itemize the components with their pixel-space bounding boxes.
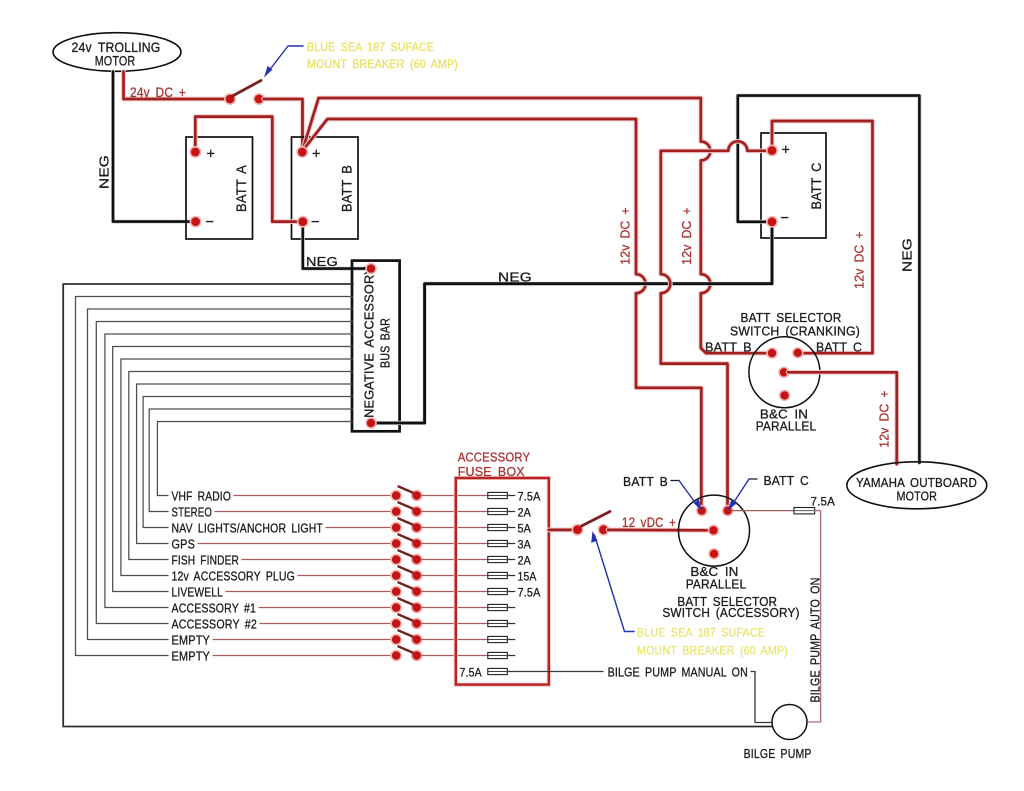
- wire: GPS feed (red) to breaker switch: [198, 543, 392, 545]
- svg-text:MOUNT BREAKER (60 AMP): MOUNT BREAKER (60 AMP): [307, 57, 458, 71]
- svg-text:2A: 2A: [518, 554, 532, 568]
- switch: EMPTY breaker: [390, 647, 422, 662]
- fuse F8: [488, 604, 515, 610]
- wire: EMPTY feed (red) to breaker switch: [213, 639, 392, 641]
- switch: GPS breaker: [390, 535, 422, 550]
- switch: ACCESSORY #1 breaker: [390, 599, 422, 614]
- bus bar terminal (top): [365, 263, 377, 275]
- svg-text:ACCESSORY #2: ACCESSORY #2: [172, 618, 258, 632]
- wire: STEREO negative (nested, to bus bar): [149, 409, 353, 512]
- switch: EMPTY breaker: [390, 631, 422, 646]
- svg-text:7.5A: 7.5A: [518, 490, 541, 504]
- svg-text:BATT C: BATT C: [808, 163, 824, 210]
- svg-text:BLUE SEA 187 SUFACE: BLUE SEA 187 SUFACE: [637, 626, 765, 640]
- svg-text:MOTOR: MOTOR: [95, 54, 136, 69]
- svg-text:3A: 3A: [518, 538, 532, 552]
- svg-text:BATT A: BATT A: [233, 165, 249, 212]
- wire: EMPTY negative (nested, to bus bar): [76, 297, 354, 656]
- svg-text:ACCESSORY #1: ACCESSORY #1: [172, 602, 257, 616]
- wire: accessory selector to bilge auto fuse: [732, 510, 795, 512]
- svg-text:5A: 5A: [518, 522, 532, 536]
- svg-text:BUS BAR: BUS BAR: [378, 318, 393, 368]
- wire: ACCESSORY #1 into fuse box: [421, 607, 488, 609]
- wire: 12v ACCESSORY PLUG into fuse box: [421, 575, 488, 577]
- terminal BATT A +: [189, 146, 201, 158]
- selector switch S2: batt selector (accessory): [679, 495, 750, 566]
- wire: BATT B + to accessory selector BATT B terminal (red): [302, 119, 701, 506]
- wire: fuse box 12 vDC + feed: [549, 528, 574, 533]
- callout: Blue Sea 187 surface mount breaker (lower): [591, 531, 788, 658]
- svg-text:BILGE PUMP MANUAL ON: BILGE PUMP MANUAL ON: [608, 665, 748, 680]
- svg-text:GPS: GPS: [172, 538, 196, 552]
- svg-text:LIVEWELL: LIVEWELL: [172, 586, 224, 600]
- terminal BATT A -: [190, 216, 202, 228]
- svg-text:7.5A: 7.5A: [811, 495, 836, 509]
- battery BATT C: [761, 133, 826, 238]
- wire: EMPTY feed (red) to breaker switch: [213, 655, 392, 657]
- svg-text:+: +: [207, 147, 216, 163]
- wire: BATT B - to bus bar (black): [303, 224, 366, 269]
- wire: bilge pump negative (bus bar to bilge pump, outermost): [63, 284, 772, 727]
- svg-text:2A: 2A: [518, 506, 532, 520]
- wire: ACCESSORY #2 feed (red) to breaker switch: [260, 623, 392, 625]
- svg-text:BATT C: BATT C: [764, 473, 810, 488]
- svg-text:FUSE BOX: FUSE BOX: [458, 464, 525, 479]
- svg-text:BATT B: BATT B: [705, 340, 752, 355]
- wire: VHF RADIO feed (red) to breaker switch: [234, 495, 392, 497]
- accessory fuse box: [456, 478, 549, 685]
- svg-text:NEG: NEG: [900, 238, 915, 272]
- negative accessory bus bar: [352, 261, 400, 432]
- wire: cranking selector output 12v DC + to outboard (red): [788, 372, 897, 464]
- fuse F7: [488, 588, 515, 594]
- fuse F12: bilge pump manual 7.5A: [460, 666, 508, 680]
- wire: GPS into fuse box: [421, 543, 488, 545]
- svg-text:BATT C: BATT C: [816, 340, 862, 355]
- fuse F2: [488, 508, 515, 514]
- wire: bus bar to BATT C - (black NEG): [371, 225, 772, 423]
- svg-text:7.5A: 7.5A: [518, 586, 541, 600]
- svg-text:12v DC +: 12v DC +: [679, 207, 694, 265]
- selector switch S1: batt selector (cranking): [749, 337, 820, 408]
- wire: STEREO feed (red) to breaker switch: [215, 511, 392, 513]
- fuse F6: [488, 572, 515, 578]
- wire: EMPTY negative (nested, to bus bar): [88, 309, 354, 640]
- wire: BATT C + to accessory selector BATT C (red, with hops): [661, 141, 768, 506]
- wire: ACCESSORY #2 negative (nested, to bus bar): [96, 322, 353, 624]
- svg-text:+: +: [782, 143, 791, 159]
- bus bar terminal (bottom): [365, 417, 377, 429]
- wire: BATT B + to cranking selector BATT B terminal (red): [302, 98, 767, 353]
- svg-text:NAV LIGHTS/ANCHOR LIGHT: NAV LIGHTS/ANCHOR LIGHT: [172, 522, 324, 536]
- terminal BATT B -: [297, 216, 309, 228]
- switch: 12v ACCESSORY PLUG breaker: [390, 567, 422, 582]
- svg-text:NEG: NEG: [97, 155, 112, 189]
- fuse F4: [488, 540, 515, 546]
- wire: BATT C + up and over to cranking selector BATT C (red): [772, 121, 873, 353]
- wire: FISH FINDER into fuse box: [421, 559, 488, 561]
- svg-text:NEGATIVE ACCESSORY: NEGATIVE ACCESSORY: [362, 266, 377, 418]
- svg-text:−: −: [311, 215, 320, 231]
- svg-text:FISH FINDER: FISH FINDER: [172, 554, 240, 568]
- wire: bilge pump manual on: [507, 671, 603, 673]
- fuse F3: [488, 524, 515, 530]
- wire: NAV LIGHTS/ANCHOR LIGHT negative (nested, to bus bar): [143, 397, 353, 528]
- wire: FISH FINDER feed (red) to breaker switch: [242, 559, 392, 561]
- switch: LIVEWELL breaker: [390, 583, 422, 598]
- label BATT B (accessory) with arrow: [623, 474, 702, 511]
- svg-text:12v DC +: 12v DC +: [618, 207, 633, 265]
- svg-text:BILGE PUMP: BILGE PUMP: [744, 746, 812, 761]
- switch: FISH FINDER breaker: [390, 551, 422, 566]
- wire: LIVEWELL feed (red) to breaker switch: [226, 591, 392, 593]
- wire: NAV LIGHTS/ANCHOR LIGHT feed (red) to breaker switch: [326, 527, 392, 529]
- switch: ACCESSORY #2 breaker: [390, 615, 422, 630]
- motor M1: 24v trolling motor: [53, 33, 181, 72]
- wire: trolling motor 24v DC + (red) to breaker: [124, 72, 227, 100]
- fuse F5: [488, 556, 515, 562]
- svg-text:−: −: [781, 211, 790, 227]
- wire: 12v ACCESSORY PLUG feed (red) to breaker switch: [298, 575, 392, 577]
- terminal BATT C -: [766, 216, 778, 228]
- wire: VHF RADIO negative (nested, to bus bar): [157, 422, 353, 496]
- svg-text:STEREO: STEREO: [172, 506, 213, 520]
- callout: Blue Sea 187 surface mount breaker (upper): [264, 40, 458, 78]
- breaker CB2: Blue Sea 187 60A (accessory): [572, 512, 611, 536]
- svg-text:24v DC +: 24v DC +: [130, 85, 186, 100]
- svg-text:SWITCH (ACCESSORY): SWITCH (ACCESSORY): [662, 605, 799, 620]
- switch: NAV LIGHTS/ANCHOR LIGHT breaker: [390, 519, 422, 534]
- wire: LIVEWELL into fuse box: [421, 591, 488, 593]
- wire: GPS negative (nested, to bus bar): [137, 384, 353, 544]
- svg-text:12v ACCESSORY PLUG: 12v ACCESSORY PLUG: [172, 570, 296, 584]
- wire: ACCESSORY #1 negative (nested, to bus bar): [105, 334, 353, 608]
- switch: VHF RADIO breaker: [390, 487, 422, 502]
- battery BATT B: [292, 137, 359, 239]
- wire: trolling motor negative (black) to BATT A -: [113, 72, 191, 222]
- wire: ACCESSORY #1 feed (red) to breaker switch: [259, 607, 392, 609]
- svg-text:−: −: [206, 215, 215, 231]
- label BATT C (accessory) with arrow: [728, 473, 809, 511]
- svg-text:SWITCH (CRANKING): SWITCH (CRANKING): [730, 324, 860, 339]
- wire: ACCESSORY #2 into fuse box: [421, 623, 488, 625]
- svg-text:12v DC +: 12v DC +: [877, 390, 892, 448]
- svg-text:NEG: NEG: [498, 270, 532, 285]
- wire: breaker to accessory selector center: [608, 528, 710, 533]
- wire: LIVEWELL negative (nested, to bus bar): [113, 347, 353, 592]
- svg-text:12v DC +: 12v DC +: [852, 231, 867, 289]
- svg-text:MOTOR: MOTOR: [897, 489, 938, 504]
- svg-text:+: +: [312, 147, 321, 163]
- fuse F13: bilge auto 7.5A: [794, 508, 815, 514]
- wire: STEREO into fuse box: [421, 511, 488, 513]
- svg-text:MOUNT BREAKER (60 AMP): MOUNT BREAKER (60 AMP): [637, 644, 788, 658]
- svg-text:NEG: NEG: [306, 254, 338, 269]
- wire: NAV LIGHTS/ANCHOR LIGHT into fuse box: [421, 527, 488, 529]
- wire: VHF RADIO into fuse box: [421, 495, 488, 497]
- fuse F1: [488, 492, 515, 498]
- svg-text:PARALLEL: PARALLEL: [686, 577, 747, 592]
- switch: STEREO breaker: [390, 503, 422, 518]
- svg-text:15A: 15A: [518, 570, 537, 584]
- terminal BATT B +: [296, 146, 308, 158]
- wire: bilge pump auto on: [807, 511, 820, 722]
- svg-text:7.5A: 7.5A: [460, 666, 482, 680]
- svg-text:12 vDC +: 12 vDC +: [622, 515, 676, 530]
- wire: FISH FINDER negative (nested, to bus bar): [129, 372, 353, 560]
- svg-text:EMPTY: EMPTY: [172, 650, 211, 664]
- svg-text:ACCESSORY: ACCESSORY: [458, 450, 531, 465]
- black loop: BATT C - to outboard negative: [738, 96, 920, 463]
- terminal BATT C +: [766, 145, 778, 157]
- bilge pump: [772, 705, 807, 740]
- svg-text:EMPTY: EMPTY: [172, 634, 211, 648]
- svg-text:VHF RADIO: VHF RADIO: [172, 490, 232, 504]
- wire: 12v ACCESSORY PLUG negative (nested, to bus bar): [121, 359, 353, 576]
- svg-text:BATT B: BATT B: [338, 165, 354, 212]
- svg-text:BILGE PUMP AUTO ON: BILGE PUMP AUTO ON: [808, 578, 823, 703]
- svg-text:BATT B: BATT B: [623, 474, 668, 489]
- breaker CB1: Blue Sea 187 60A (trolling motor): [224, 81, 265, 106]
- wire: BATT A + to BATT B - (series 24v, red): [195, 117, 298, 222]
- motor M2: yamaha outboard motor: [847, 462, 987, 509]
- wire: EMPTY into fuse box: [421, 655, 488, 657]
- svg-text:BLUE SEA 187 SUFACE: BLUE SEA 187 SUFACE: [307, 40, 434, 54]
- svg-text:PARALLEL: PARALLEL: [756, 419, 817, 434]
- fuse F11: [488, 652, 515, 658]
- fuse F9: [488, 620, 515, 626]
- wire: manual-on to bilge pump: [751, 672, 772, 723]
- wire: EMPTY into fuse box: [421, 639, 488, 641]
- battery BATT A: [186, 137, 253, 239]
- fuse F10: [488, 636, 515, 642]
- wire: breaker to BATT B + (red): [264, 99, 303, 149]
